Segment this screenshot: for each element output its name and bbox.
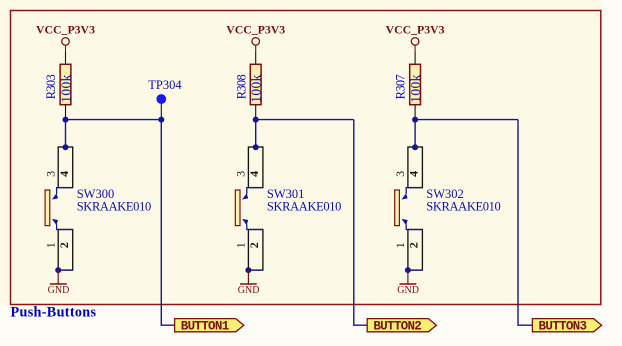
ground GND (1) [48,270,70,296]
svg-text:100k: 100k [249,74,264,103]
junction switch bottom left [55,267,61,273]
test point TP304 [148,78,182,120]
svg-text:1: 1 [393,242,407,248]
wire node3 vertical drop to port [518,120,532,326]
junction switch bottom left [245,267,251,273]
wire node3 horizontal [415,119,518,121]
svg-text:GND: GND [238,285,260,296]
svg-text:4: 4 [406,171,420,177]
ground GND (2) [238,270,260,296]
junction node1 [63,117,69,123]
wire node2 horizontal [256,119,354,121]
wire node1 vertical drop to port [161,120,174,326]
svg-text:4: 4 [57,171,71,177]
svg-text:1: 1 [44,242,58,248]
svg-text:2: 2 [406,242,420,248]
junction switch top [412,144,418,150]
junction switch top [63,144,69,150]
svg-text:SKRAAKE010: SKRAAKE010 [267,200,342,214]
actuator bar SW300 [45,190,50,226]
junction switch bottom left [405,267,411,273]
svg-text:SKRAAKE010: SKRAAKE010 [426,200,501,214]
svg-text:GND: GND [48,285,70,296]
junction node2 [253,117,259,123]
port BUTTON2 [367,319,436,334]
svg-text:VCC_P3V3: VCC_P3V3 [226,23,285,37]
power port VCC_P3V3 (2) [226,23,285,53]
switch SW300 SKRAAKE010 [52,147,73,270]
ground GND (3) [397,270,419,296]
svg-text:VCC_P3V3: VCC_P3V3 [386,23,445,37]
wire node1 horizontal [66,119,162,121]
junction node3 [412,117,418,123]
wire resistor to switch [255,120,257,147]
junction switch top [253,144,259,150]
svg-text:3: 3 [234,171,248,177]
svg-text:100k: 100k [408,74,423,103]
power port VCC_P3V3 (1) [36,23,95,53]
port BUTTON3 [532,319,601,334]
wire resistor to switch [65,120,67,147]
svg-text:100k: 100k [58,74,73,103]
actuator bar SW302 [395,190,400,226]
svg-text:4: 4 [247,171,261,177]
switch SW301 SKRAAKE010 [242,147,263,270]
svg-text:3: 3 [44,171,58,177]
switch SW302 SKRAAKE010 [402,147,423,270]
svg-text:R303: R303 [44,74,58,99]
resistor R308 100k [250,52,261,120]
svg-text:1: 1 [234,242,248,248]
junction TP line [158,117,164,123]
svg-text:2: 2 [247,242,261,248]
svg-text:R308: R308 [234,74,248,99]
svg-text:BUTTON1: BUTTON1 [181,320,230,334]
svg-text:VCC_P3V3: VCC_P3V3 [36,23,95,37]
svg-text:TP304: TP304 [148,78,182,92]
svg-text:Push-Buttons: Push-Buttons [11,304,97,320]
svg-text:2: 2 [57,242,71,248]
wire node2 vertical drop to port [354,120,367,326]
svg-text:GND: GND [397,285,419,296]
wire resistor to switch [414,120,416,147]
svg-text:SKRAAKE010: SKRAAKE010 [77,200,152,214]
resistor R303 100k [60,52,71,120]
power port VCC_P3V3 (3) [386,23,445,53]
svg-text:3: 3 [393,171,407,177]
svg-text:BUTTON3: BUTTON3 [539,320,588,334]
resistor R307 100k [410,52,421,120]
port BUTTON1 [175,319,244,334]
svg-text:BUTTON2: BUTTON2 [373,320,422,334]
svg-text:R307: R307 [394,74,408,99]
actuator bar SW301 [235,190,240,226]
